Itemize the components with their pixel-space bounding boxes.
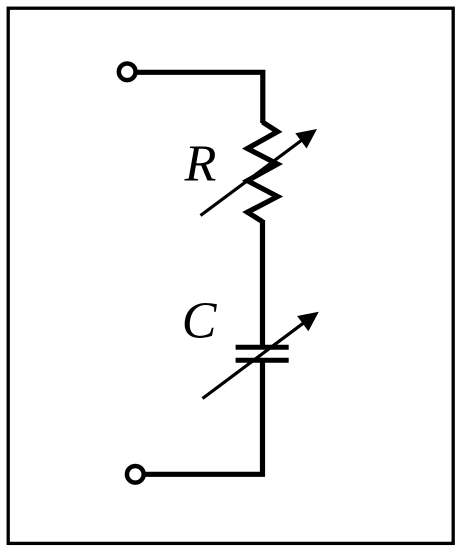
variable-adjust arrow of C — [203, 312, 319, 399]
resistor R (variable, zigzag) — [247, 122, 277, 222]
wire from resistor bottom to capacitor top plate — [260, 220, 265, 348]
terminal T2 (bottom) — [127, 466, 144, 483]
capacitor C top plate — [236, 345, 289, 350]
variable-adjust arrow of R — [201, 129, 318, 216]
capacitor C bottom plate — [236, 358, 289, 363]
wire from T1 to resistor top — [136, 72, 263, 123]
wire from capacitor bottom plate to terminal T2 — [144, 360, 263, 475]
svg-text:C: C — [182, 292, 218, 349]
svg-text:R: R — [184, 136, 217, 193]
terminal T1 (top input) — [119, 63, 136, 80]
